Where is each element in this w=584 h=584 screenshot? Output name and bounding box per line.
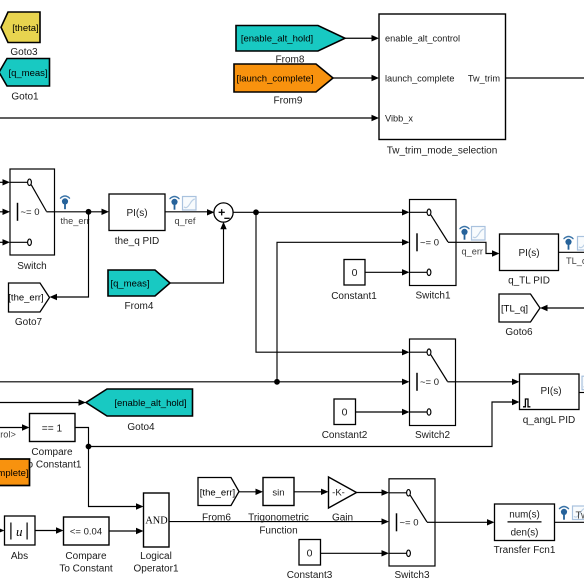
pid block q_TL PID (500, 234, 559, 271)
wire external to Compare To Constant1 (0, 424, 30, 430)
svg-text:Tw_trim_mode_selection: Tw_trim_mode_selection (387, 146, 498, 157)
wire Switch to the_q PID (55, 209, 110, 215)
wire Constant1 to Switch1 input 3 (365, 269, 410, 275)
svg-text:Switch: Switch (17, 261, 46, 272)
from tag From4 [q_meas] (108, 270, 170, 296)
test point badge on the_err (61, 196, 70, 209)
test point badge on q_err (460, 227, 469, 240)
svg-text:~= 0: ~= 0 (21, 207, 40, 218)
svg-text:den(s): den(s) (511, 528, 539, 539)
label Logical Operator1 (133, 551, 178, 575)
test point badge on q_ref (170, 197, 179, 210)
wire Switch2 to q_angL PID (456, 379, 520, 385)
goto tag Goto6 [TL_q] (499, 294, 540, 322)
svg-text:== 1: == 1 (42, 423, 63, 434)
sum junction Sum (214, 203, 233, 222)
svg-text:PI(s): PI(s) (540, 386, 561, 397)
svg-text:Abs: Abs (11, 551, 28, 562)
test point badge on Tw signal (560, 507, 569, 520)
wire Constant3 to Switch3 input 3 (321, 550, 390, 556)
wire the_err to Goto7 (50, 212, 89, 300)
wire into Switch input 1 (0, 179, 10, 185)
compare block Compare To Constant1 (30, 414, 76, 442)
constant block Constant1 (344, 260, 365, 286)
svg-text:~= 0: ~= 0 (400, 518, 419, 529)
gain block Gain (329, 477, 357, 508)
wire Switch1 to q_TL PID (456, 242, 500, 256)
wire From8 to enable_alt_control (345, 35, 379, 41)
switch block Switch1 (410, 200, 457, 286)
signal label enable_alt_control clipped (0, 430, 16, 440)
scope badge on q_ref (183, 197, 197, 211)
svg-text:Goto7: Goto7 (15, 317, 43, 328)
goto tag launch_complete clipped (0, 459, 30, 486)
wire Constant2 to Switch2 input 3 (356, 409, 410, 415)
svg-text:Switch3: Switch3 (394, 570, 429, 581)
wire branch to Switch1 input 2 (277, 239, 410, 382)
svg-text:q_err: q_err (462, 246, 483, 256)
wire Compare To Constant1 to AND (75, 428, 144, 510)
wire q_angL PID output (579, 392, 584, 394)
goto tag Goto4 [enable_alt_hold] (86, 389, 193, 416)
svg-text:Goto3: Goto3 (10, 47, 38, 58)
compare block Compare To Constant (64, 517, 110, 545)
pid block q_angL PID (520, 374, 580, 410)
svg-text:-K-: -K- (332, 487, 345, 498)
test point badge on TL_cmd (564, 237, 573, 250)
svg-text:AND: AND (145, 516, 168, 527)
svg-text:Compare: Compare (31, 447, 73, 458)
svg-text:From4: From4 (125, 301, 154, 312)
svg-text:Switch1: Switch1 (415, 291, 450, 302)
wire Vibb_x input (0, 115, 379, 121)
svg-text:0: 0 (307, 547, 313, 559)
svg-text:Logical: Logical (140, 551, 172, 562)
svg-text:[q_meas]: [q_meas] (8, 68, 47, 79)
from tag From9 [launch_complete] (234, 64, 333, 92)
junction compare output branch (86, 444, 92, 450)
label From9 (274, 96, 303, 107)
svg-text:Operator1: Operator1 (133, 564, 178, 575)
svg-text:sin: sin (272, 487, 284, 498)
svg-text:[theta]: [theta] (12, 23, 38, 34)
label Switch2 (415, 430, 450, 441)
label Gain (332, 512, 353, 523)
svg-text:[the_err]: [the_err] (200, 487, 235, 498)
scope badge on Tw signal (573, 506, 584, 520)
svg-text:[launch_complete]: [launch_complete] (0, 468, 29, 479)
pid block the_q PID (109, 194, 165, 231)
signal label the_err (61, 216, 90, 226)
scope badge on TL_cmd (578, 237, 584, 251)
svg-text:q_TL PID: q_TL PID (508, 276, 550, 287)
svg-text:Constant3: Constant3 (287, 570, 333, 581)
wire external to Goto6 (540, 305, 584, 311)
label Compare To Constant (59, 551, 113, 575)
trig block Trigonometric Function (263, 478, 294, 506)
from tag From6 [the_err] (198, 478, 239, 506)
wire Sum to Switch1 input 1 (233, 209, 410, 215)
logic block Logical Operator1 AND (144, 493, 170, 547)
svg-text:Gain: Gain (332, 512, 353, 523)
svg-text:[enable_alt_hold]: [enable_alt_hold] (114, 398, 186, 409)
goto tag Goto3 [theta] (1, 12, 40, 43)
wire external to Goto4 (0, 399, 86, 405)
goto tag Goto7 [the_err] (8, 283, 49, 312)
svg-text:Goto6: Goto6 (505, 327, 533, 338)
svg-text:~= 0: ~= 0 (420, 238, 439, 249)
svg-text:Vibb_x: Vibb_x (385, 113, 413, 123)
label Compare To Constant1 (23, 447, 82, 471)
label Trigonometric Function (248, 512, 309, 536)
switch block Switch (10, 169, 55, 255)
svg-text:Tw_trim: Tw_trim (576, 510, 584, 521)
svg-text:u: u (16, 524, 23, 539)
wire Compare To Constant to AND (109, 528, 144, 534)
svg-text:[q_meas]: [q_meas] (110, 279, 149, 290)
junction the_err branch (86, 209, 92, 215)
svg-text:<enable_alt_control>: <enable_alt_control> (0, 430, 16, 440)
wire From6 to sin (239, 489, 263, 495)
svg-text:the_q PID: the_q PID (115, 236, 159, 247)
label q_angL PID (523, 415, 575, 426)
label Constant2 (322, 430, 368, 441)
constant block Constant3 (299, 540, 321, 566)
label Abs (11, 551, 28, 562)
goto tag Goto1 [q_meas] (0, 59, 50, 87)
signal label q_ref (175, 216, 196, 226)
svg-text:[enable_alt_hold]: [enable_alt_hold] (241, 34, 313, 45)
label Goto3 (10, 47, 38, 58)
svg-text:Function: Function (259, 525, 297, 536)
svg-text:Compare: Compare (65, 551, 107, 562)
label Goto6 (505, 327, 533, 338)
svg-text:~= 0: ~= 0 (420, 377, 439, 388)
label Constant1 (331, 291, 377, 302)
svg-text:Goto4: Goto4 (127, 422, 155, 433)
wire into Switch input 3 (0, 239, 10, 245)
svg-text:Transfer Fcn1: Transfer Fcn1 (494, 545, 556, 556)
label Switch1 (415, 291, 450, 302)
svg-text:From9: From9 (274, 96, 303, 107)
label Constant3 (287, 570, 333, 581)
constant block Constant2 (334, 399, 356, 425)
label From8 (276, 55, 305, 66)
wire sin to Gain (294, 489, 329, 495)
from tag From8 [enable_alt_hold] (236, 26, 345, 52)
junction control line branch (274, 379, 280, 385)
svg-text:0: 0 (352, 267, 358, 279)
label Switch (17, 261, 46, 272)
svg-text:enable_alt_control: enable_alt_control (385, 34, 460, 44)
wire the_q PID to Sum (165, 209, 215, 215)
svg-text:To Constant: To Constant (59, 564, 113, 575)
wire Transfer Fcn1 output (555, 521, 584, 523)
wire branch to Switch2 input 1 (256, 212, 410, 355)
svg-text:To Constant1: To Constant1 (23, 460, 82, 471)
svg-text:q_angL PID: q_angL PID (523, 415, 575, 426)
junction sum output branch (253, 209, 259, 215)
subsystem Tw_trim_mode_selection (379, 14, 506, 140)
svg-text:Trigonometric: Trigonometric (248, 512, 309, 523)
wire From9 to launch_complete (333, 75, 379, 81)
svg-text:Tw_trim: Tw_trim (468, 73, 501, 83)
signal label TL_cmd (566, 256, 584, 266)
svg-text:launch_complete: launch_complete (385, 73, 454, 83)
svg-text:Constant2: Constant2 (322, 430, 368, 441)
wire From4 to Sum minus (170, 222, 227, 283)
wire into Switch input 2 (0, 209, 10, 215)
svg-text:Switch2: Switch2 (415, 430, 450, 441)
label the_q PID (115, 236, 159, 247)
svg-text:From6: From6 (202, 512, 231, 523)
svg-text:num(s): num(s) (509, 509, 539, 520)
wire external to Abs (0, 527, 5, 533)
wire AND to Switch3 input 2 (169, 518, 389, 524)
svg-text:PI(s): PI(s) (126, 208, 147, 219)
scope badge on q_err (472, 227, 486, 241)
wire q_TL PID output (559, 251, 584, 253)
svg-text:Goto1: Goto1 (11, 92, 39, 103)
svg-text:TL_cmd: TL_cmd (566, 256, 584, 266)
switch block Switch2 (410, 339, 456, 426)
svg-text:[the_err]: [the_err] (8, 293, 43, 304)
label From6 (202, 512, 231, 523)
wire Switch3 to Transfer Fcn1 (435, 519, 495, 525)
label Goto1 (11, 92, 39, 103)
wire Abs to Compare To Constant (35, 527, 64, 533)
label Switch3 (394, 570, 429, 581)
wire external to Switch2 input 2 (0, 379, 410, 385)
wire Tw_trim output (506, 77, 584, 79)
scope badge on q_angL PID output (582, 376, 584, 390)
svg-text:[TL_q]: [TL_q] (501, 304, 528, 315)
label Goto7 (15, 317, 43, 328)
transfer fcn block Transfer Fcn1 (495, 504, 555, 541)
svg-text:Constant1: Constant1 (331, 291, 377, 302)
svg-text:[launch_complete]: [launch_complete] (236, 74, 313, 85)
svg-text:<= 0.04: <= 0.04 (70, 526, 102, 537)
svg-text:the_err: the_err (61, 216, 90, 226)
signal label Tw_trim clipped (576, 510, 584, 521)
switch block Switch3 (389, 479, 435, 566)
label From4 (125, 301, 154, 312)
label Tw_trim_mode_selection (387, 146, 498, 157)
signal label q_err (462, 246, 483, 256)
label q_TL PID (508, 276, 550, 287)
wire Gain to Switch3 input 1 (357, 489, 390, 495)
abs block Abs (5, 516, 36, 545)
svg-text:PI(s): PI(s) (518, 248, 539, 259)
label Transfer Fcn1 (494, 545, 556, 556)
wire Compare branch to q_angL PID reset (89, 399, 520, 447)
svg-text:0: 0 (342, 407, 348, 419)
svg-text:q_ref: q_ref (175, 216, 196, 226)
label Goto4 (127, 422, 155, 433)
